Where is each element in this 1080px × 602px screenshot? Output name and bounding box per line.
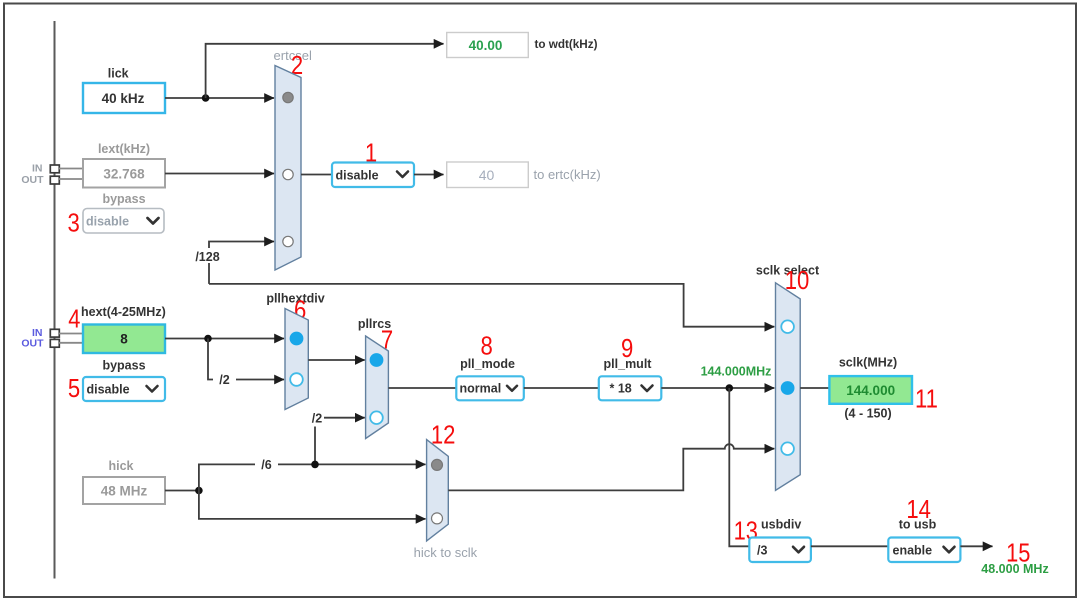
wire /128 branch to ertcsel input3 [209,242,274,284]
svg-text:enable: enable [893,544,933,558]
wire hext OUT pin to box [59,342,83,344]
svg-text:bypass: bypass [102,192,145,206]
svg-text:hext(4-25MHz): hext(4-25MHz) [81,305,166,319]
mux hick-to-sclk (12) [427,440,449,541]
mux pllrcs [366,336,389,439]
wire to usb output arrow [960,545,992,547]
marker 3 [67,209,79,238]
wire hext IN pin to box [59,333,83,335]
wire pllrcs output to pll_mode [388,387,456,389]
svg-text:/2: /2 [219,373,229,387]
svg-text:hick to sclk: hick to sclk [414,545,478,560]
wire ertcsel to dropdown1 [301,174,332,176]
value box to ertc 40 [447,162,529,188]
svg-text:/3: /3 [757,544,767,558]
marker 9 [621,334,633,363]
wire /2 horizontal to pllrcs input2 [324,417,365,419]
wire /128 to sclk select input1 [209,284,774,327]
wire hick output [165,490,199,492]
svg-text:pll_mult: pll_mult [604,357,653,371]
marker 11 [915,385,938,414]
marker 2 [291,51,303,80]
svg-text:sclk(MHz): sclk(MHz) [839,356,897,370]
wire hext /2 to pllhextdiv input2 [208,339,284,380]
svg-text:normal: normal [460,382,502,396]
wire mux12 output to sclk select input3 (with hop) [448,444,774,490]
marker 10 [785,266,810,295]
marker 5 [68,374,80,403]
wire lick to ertcsel input1 [165,97,274,99]
value label /6 [255,457,278,472]
wire lext OUT pin to box [59,178,83,180]
marker 1 [365,139,377,168]
mux12 input2 (open gray) [432,513,443,524]
mux pllhextdiv [285,309,308,410]
marker 15 [1006,539,1030,568]
svg-text:/128: /128 [195,250,219,264]
svg-text:144.000: 144.000 [846,383,895,398]
wire lext to ertcsel input2 [165,173,274,175]
pin square lext IN [50,165,59,173]
mux pllhextdiv input2 (open blue) [290,373,303,386]
dropdown 9 pll_mult *18 [599,376,662,400]
wire sclk select to sclk box [800,387,829,389]
svg-text:4: 4 [68,305,80,334]
svg-text:40: 40 [479,167,495,183]
svg-text:144.000MHz: 144.000MHz [701,365,772,379]
value label /128 [194,248,221,264]
dropdown 14 to usb enable [888,538,960,563]
marker 8 [480,332,492,361]
mux10 input3 (open blue) [781,442,794,455]
svg-text:OUT: OUT [21,174,44,186]
pin square lext OUT [50,176,59,184]
mux pllrcs input2 (open blue) [370,411,383,424]
svg-text:* 18: * 18 [610,382,632,396]
oscillator HICK box 48 MHz [83,477,165,504]
mux sclk select (10) [776,283,801,491]
oscillator LEXT box 32.768 [83,159,165,188]
svg-text:disable: disable [87,383,130,397]
junction hext node [204,335,212,343]
svg-text:OUT: OUT [21,337,44,349]
svg-text:disable: disable [86,215,129,229]
svg-text:to usb: to usb [899,518,937,532]
svg-text:48 MHz: 48 MHz [101,484,148,499]
marker 6 [294,296,306,325]
svg-text:IN: IN [32,163,43,175]
dropdown 1 ertc disable [332,163,414,188]
svg-text:5: 5 [68,374,80,403]
mux12 input1 select (filled gray) [432,459,443,470]
svg-text:to wdt(kHz): to wdt(kHz) [535,38,598,51]
wire hick /6 to mux12 input1 [199,464,426,490]
mux10 input1 (open blue) [781,320,794,333]
svg-text:8: 8 [120,332,128,347]
svg-text:hick: hick [108,459,133,473]
marker 13 [734,517,758,546]
wire dropdown1 to ertc box [414,174,444,176]
value box sclk 144.000 [829,376,912,404]
svg-text:3: 3 [67,209,79,238]
mux ertcsel input1 select (filled) [283,92,293,102]
dropdown 8 pll_mode normal [456,376,524,400]
dropdown 13 usbdiv /3 [749,538,811,563]
wire lext IN pin to box [59,168,83,170]
svg-text:bypass: bypass [102,359,145,373]
wire lick to wdt box [206,44,444,98]
pin square hext IN [50,329,59,337]
svg-text:40.00: 40.00 [469,38,503,53]
wire pll_mult to sclk select input2 [661,387,774,389]
mux ertcsel input2 (open) [283,169,293,179]
junction /6 to /2 node [311,461,319,469]
mux pllrcs input1 select (filled blue) [370,354,383,367]
value box to wdt 40.00 [447,33,529,58]
mux pllhextdiv input1 select (filled blue) [290,332,303,345]
svg-text:11: 11 [915,385,938,414]
wire pll node down to usbdiv [729,388,749,546]
svg-text:48.000 MHz: 48.000 MHz [981,562,1048,576]
dropdown 5 hext bypass disable [83,377,165,401]
svg-text:/6: /6 [261,458,271,472]
wire pll_mode to pll_mult [524,387,599,389]
svg-text:disable: disable [336,169,379,183]
pin square hext OUT [50,339,59,347]
oscillator HEXT box 8 [83,325,165,354]
wire pllhextdiv to pllrcs input1 [308,359,364,361]
mux ertcsel [275,66,301,271]
svg-text:32.768: 32.768 [103,167,145,182]
wire usbdiv to to-usb dropdown [811,545,888,547]
svg-text:40 kHz: 40 kHz [102,91,145,106]
junction hick node [195,487,203,495]
wire input bus line [54,21,56,579]
dropdown 3 lext bypass disable [83,209,164,234]
svg-text:to ertc(kHz): to ertc(kHz) [534,167,601,182]
marker 14 [906,495,931,524]
wire /2 branch to pllrcs input2 [314,427,316,465]
svg-text:/2: /2 [312,412,322,426]
marker 7 [381,326,393,355]
svg-text:(4 - 150): (4 - 150) [844,407,891,421]
wire hext to pllhextdiv input1 [165,338,284,340]
svg-text:pll_mode: pll_mode [460,357,515,371]
value label /2 (hext) [213,372,236,387]
svg-text:usbdiv: usbdiv [761,518,801,532]
svg-text:lick: lick [108,67,129,81]
junction pll output node [726,384,734,392]
junction lick node [202,94,210,102]
marker 12 [431,421,456,450]
oscillator LICK box 40 kHz [83,83,165,113]
svg-text:lext(kHz): lext(kHz) [98,142,150,156]
marker 4 [68,305,80,334]
mux ertcsel input3 (open) [283,236,293,246]
wire hick direct to mux12 input2 [199,491,426,519]
mux10 input2 select (filled blue) [781,382,794,395]
